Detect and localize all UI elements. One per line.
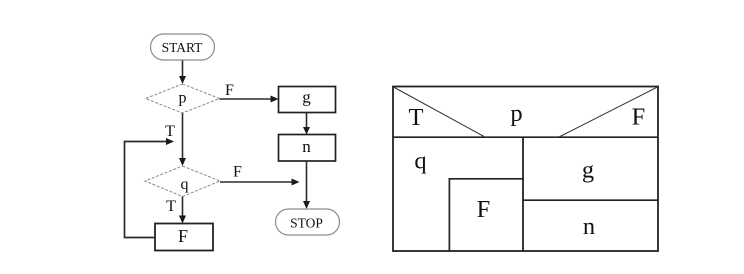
wire q to n-stop line — [220, 179, 300, 186]
inner F box top edge — [449, 178, 524, 180]
svg-text:q: q — [414, 148, 426, 175]
svg-text:START: START — [162, 40, 204, 55]
decision diamond q — [145, 166, 220, 197]
wire q to F box — [179, 197, 186, 224]
structure chart outer rectangle — [393, 87, 658, 252]
svg-text:q: q — [181, 176, 189, 193]
wire n to STOP — [306, 161, 308, 202]
wire p to g — [220, 96, 279, 103]
right diagonal — [559, 87, 658, 137]
process box n — [279, 135, 336, 162]
terminator START — [151, 34, 215, 60]
wire g to n — [303, 113, 310, 135]
svg-text:p: p — [510, 100, 522, 127]
process box g — [279, 87, 336, 113]
svg-text:T: T — [165, 123, 175, 140]
decision diamond p — [146, 84, 220, 113]
process box F — [155, 224, 213, 251]
left diagonal — [394, 87, 485, 137]
svg-text:n: n — [302, 137, 311, 156]
svg-text:p: p — [179, 90, 187, 107]
svg-text:T: T — [166, 198, 176, 215]
arrowhead into STOP — [303, 201, 310, 209]
svg-text:F: F — [477, 196, 491, 223]
header divider — [393, 136, 659, 138]
svg-text:g: g — [302, 88, 311, 107]
wire START to p — [179, 61, 186, 85]
loop wire F box back to junction above q — [125, 138, 175, 238]
center vertical divider — [522, 137, 524, 252]
svg-text:T: T — [409, 104, 424, 131]
terminator STOP — [276, 209, 340, 235]
svg-text:F: F — [632, 104, 646, 131]
svg-text:n: n — [583, 213, 595, 240]
svg-text:g: g — [582, 157, 594, 184]
g n divider — [523, 199, 658, 201]
svg-text:F: F — [233, 164, 242, 181]
svg-text:STOP: STOP — [290, 216, 323, 231]
svg-text:F: F — [225, 82, 234, 99]
svg-text:F: F — [178, 226, 188, 246]
inner F box left edge — [448, 179, 450, 251]
wire p to q — [179, 113, 186, 166]
